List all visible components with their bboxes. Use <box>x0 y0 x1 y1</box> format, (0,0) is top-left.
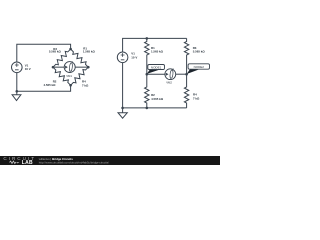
voltage source V1 (left) <box>11 62 30 73</box>
svg-text:10 V: 10 V <box>25 67 31 71</box>
svg-text:NODE2: NODE2 <box>194 65 205 69</box>
node junction right middle <box>185 73 188 76</box>
footer bar <box>0 156 220 165</box>
wire R1 to middle node <box>146 58 148 74</box>
resistor R2 (right circuit) <box>145 74 164 108</box>
wire left middle node to voltmeter <box>147 73 165 75</box>
node junction bottom ground <box>121 107 124 110</box>
svg-text:10 V: 10 V <box>131 56 137 60</box>
voltmeter VM2 <box>165 69 176 85</box>
wire V1 right bottom to ground rail <box>122 63 124 113</box>
node label NODE1 <box>147 65 165 74</box>
wire bridge left node to voltmeter <box>53 66 64 68</box>
wire voltmeter to bridge right node <box>75 66 88 68</box>
resistor R1 (right circuit) <box>145 38 164 58</box>
svg-text:7 kΩ: 7 kΩ <box>82 83 89 87</box>
svg-text:http://www.circuitlab.com/circ: http://www.circuitlab.com/circuit/md4ab5… <box>39 160 109 164</box>
svg-text:1.565 kΩ: 1.565 kΩ <box>151 50 164 54</box>
svg-text:4.565 kΩ: 4.565 kΩ <box>44 83 57 87</box>
ground (left) <box>12 91 21 100</box>
wire R3 to right middle node <box>186 58 188 74</box>
svg-text:5.565 kΩ: 5.565 kΩ <box>193 50 206 54</box>
resistor R1 (bridge top-right arm) <box>71 47 96 68</box>
resistor R3 (right circuit) <box>184 38 205 58</box>
wire V1 left bottom to bridge bottom <box>17 73 71 92</box>
svg-text:VM2: VM2 <box>166 80 172 84</box>
resistor R2 (bridge bottom-left arm) <box>44 67 71 87</box>
svg-text:NODE1: NODE1 <box>151 66 162 70</box>
node label NODE2 <box>187 64 210 74</box>
wire voltmeter to right middle node <box>176 73 187 75</box>
resistor R4 (bridge bottom-right arm) <box>71 67 89 87</box>
svg-text:VM1: VM1 <box>66 74 72 78</box>
CircuitLab logo <box>3 156 36 166</box>
node junction left ground <box>15 90 18 93</box>
resistor R3 (bridge top-left arm) <box>49 47 71 67</box>
node junction left middle <box>146 73 149 76</box>
ground (right) <box>118 113 127 119</box>
resistor R4 (right circuit) <box>184 74 200 108</box>
svg-text:1.565 kΩ: 1.565 kΩ <box>83 50 96 54</box>
node junction bridge top <box>69 48 72 51</box>
node junction bottom left branch <box>146 107 149 110</box>
node junction bridge left <box>52 66 55 69</box>
wire V1 left top to bridge top <box>17 44 71 62</box>
node junction bridge right <box>87 66 90 69</box>
node junction top rail <box>146 37 149 40</box>
voltmeter VM1 <box>64 62 75 79</box>
wire V1 right top rail <box>123 38 187 52</box>
node junction bridge bottom <box>69 84 72 87</box>
svg-text:4.565 kΩ: 4.565 kΩ <box>151 97 164 101</box>
svg-text:7 kΩ: 7 kΩ <box>193 96 200 100</box>
wire bottom rail (right circuit) <box>123 107 187 109</box>
svg-text:LAB: LAB <box>22 160 33 165</box>
voltage source V1 (right) <box>117 52 137 63</box>
svg-text:5.565 kΩ: 5.565 kΩ <box>49 50 62 54</box>
